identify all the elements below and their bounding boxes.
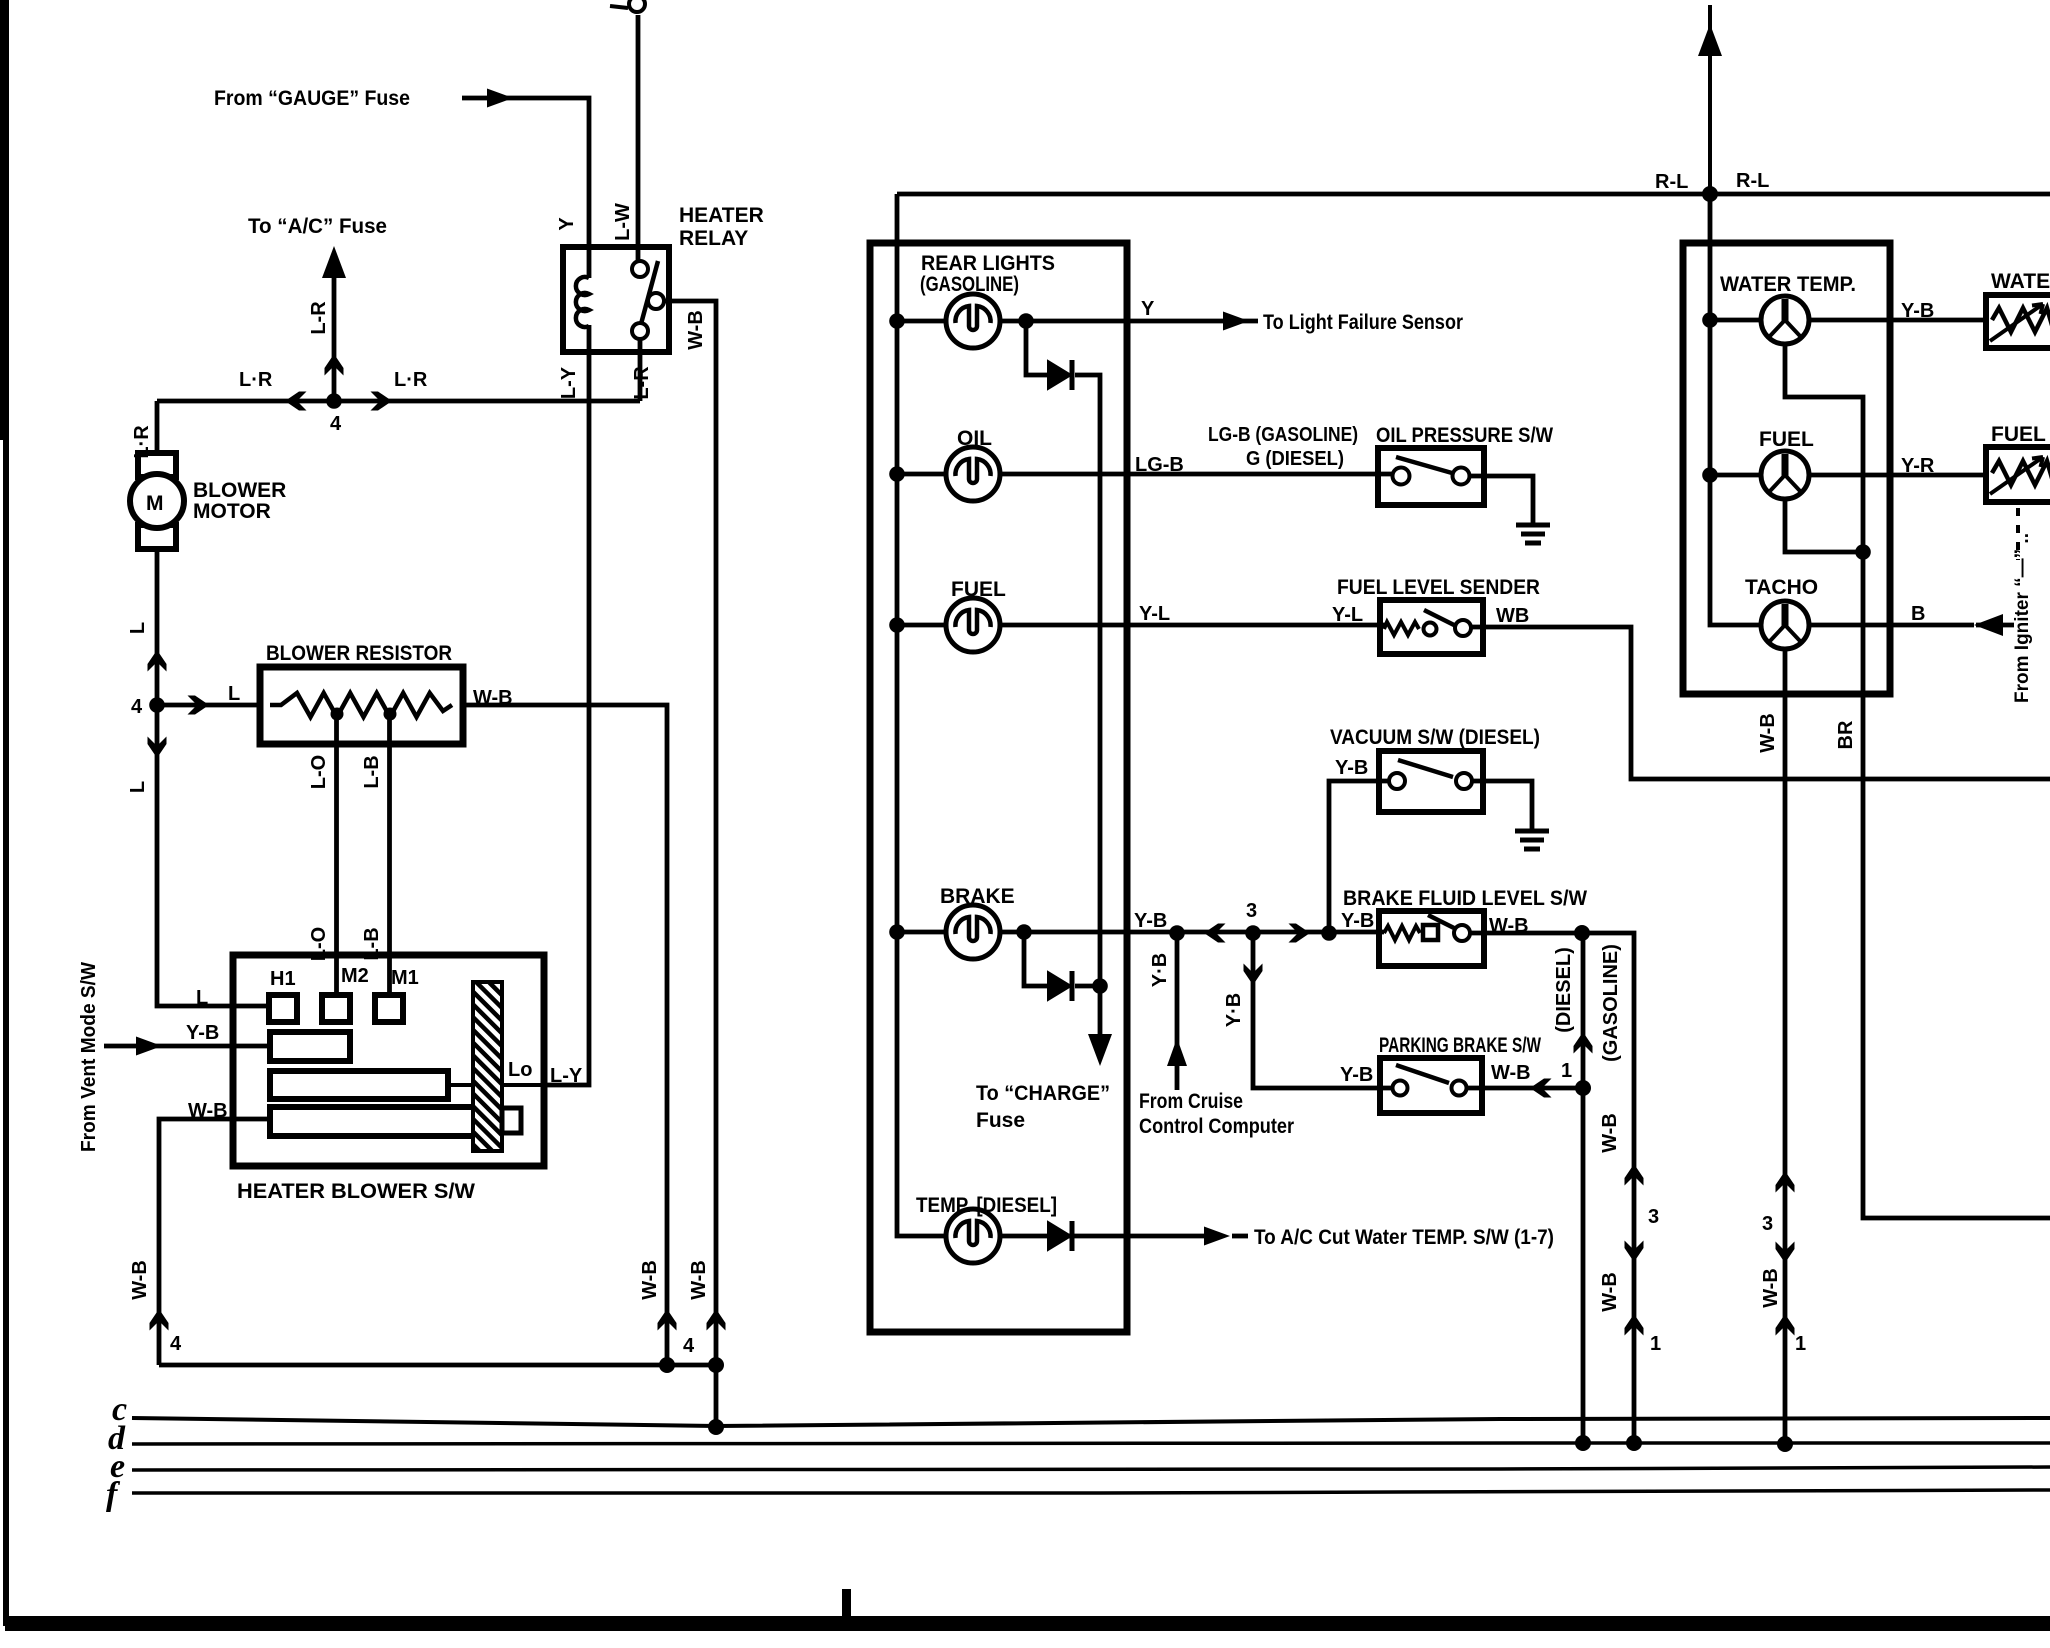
svg-text:L-W: L-W [612, 203, 634, 241]
wire: relay W-B output down right side [663, 301, 716, 1365]
gauge water temp [1761, 296, 1809, 344]
svg-text:BLOWER: BLOWER [193, 479, 286, 502]
wire: diode to charge line [1075, 375, 1100, 1054]
junction dot water [1702, 312, 1718, 328]
svg-text:From Igniter “—” ..: From Igniter “—” .. [2012, 533, 2033, 703]
wiper hatched bar [473, 982, 502, 1151]
wire: rear lamp row [897, 319, 946, 324]
switch contact bar 1 [270, 1032, 350, 1061]
wire: resistor tap L-B to M1 [387, 714, 392, 996]
page frame bottom border [5, 1616, 2050, 1631]
svg-text:R-L: R-L [1655, 171, 1688, 193]
oil pressure blade [1396, 457, 1452, 473]
svg-text:To “CHARGE”: To “CHARGE” [976, 1082, 1110, 1105]
svg-text:L: L [127, 622, 149, 634]
wire: gasoline branch [1582, 933, 1634, 1443]
arrowhead on GAUGE fuse wire [487, 89, 513, 108]
svg-text:M1: M1 [391, 967, 419, 989]
svg-text:From “GAUGE” Fuse: From “GAUGE” Fuse [214, 87, 410, 110]
junction dot vacuum feed [1321, 925, 1337, 941]
svg-text:(DIESEL): (DIESEL) [1553, 947, 1575, 1033]
svg-text:PARKING BRAKE S/W: PARKING BRAKE S/W [1379, 1034, 1541, 1057]
svg-text:REAR LIGHTS: REAR LIGHTS [921, 252, 1055, 275]
chevron down gasoline [1625, 1241, 1644, 1263]
relay coil [576, 277, 589, 327]
svg-text:Y-B: Y-B [1134, 910, 1167, 932]
ground at vacuum [1515, 831, 1549, 849]
svg-text:L-R: L-R [631, 366, 653, 400]
svg-text:OIL PRESSURE S/W: OIL PRESSURE S/W [1376, 424, 1553, 447]
wire: bottom W-B collector [159, 1363, 716, 1368]
svg-text:R-L: R-L [1736, 170, 1769, 192]
wire: L from motor to junction 4 [155, 549, 160, 705]
junction dot brake feed [889, 924, 905, 940]
wire: oil lamp row [897, 472, 946, 477]
svg-text:L-Y: L-Y [550, 1065, 583, 1087]
relay blade [641, 261, 658, 324]
chevron left on brake row [1204, 924, 1226, 943]
wire: fuel sender WB out [1470, 627, 2050, 779]
diode D2 [1048, 971, 1072, 1001]
brake fluid pivot square [1423, 925, 1438, 940]
wire: water temp bottom to BR [1785, 344, 2050, 1218]
chevron left on L-R wire [285, 392, 307, 411]
svg-text:M2: M2 [341, 965, 369, 987]
heater relay box [563, 247, 669, 352]
vacuum contacts [1389, 773, 1405, 789]
svg-text:4: 4 [330, 413, 342, 435]
svg-text:BLOWER RESISTOR: BLOWER RESISTOR [266, 642, 452, 665]
parking brake switch box [1380, 1058, 1482, 1113]
chevron up W-B tacho line [1776, 1171, 1795, 1193]
svg-text:W-B: W-B [188, 1100, 228, 1122]
junction dot on rail c [708, 1419, 724, 1435]
diode D3 [1048, 1221, 1072, 1251]
chevron down tacho line [1776, 1242, 1795, 1264]
fuel sender right box [1986, 423, 2050, 502]
svg-text:W-B: W-B [1491, 1062, 1531, 1084]
wire: brake diode out [1075, 984, 1100, 989]
oil pressure switch box [1378, 448, 1484, 505]
junction dot 3 [1245, 925, 1261, 941]
fuel level sender box [1380, 600, 1483, 654]
svg-text:3: 3 [1762, 1213, 1773, 1235]
junction dots on rail d [1575, 1435, 1591, 1451]
arrowhead down to charge fuse [1088, 1034, 1112, 1066]
chevron up on A/C stem [325, 354, 344, 376]
wire: relay L-R bottom contact to horizontal [638, 338, 643, 401]
svg-text:3: 3 [1246, 900, 1257, 922]
svg-text:G (DIESEL): G (DIESEL) [1246, 448, 1344, 470]
svg-text:FUEL LEVEL SENDER: FUEL LEVEL SENDER [1337, 576, 1540, 599]
junction dot 4 at resistor feed [149, 697, 165, 713]
svg-text:4: 4 [170, 1333, 182, 1355]
svg-text:H1: H1 [270, 968, 296, 990]
junction dot 4 [326, 393, 342, 409]
terminal H1 [269, 995, 297, 1022]
bar2 link to wiper [448, 1083, 472, 1087]
svg-text:From Cruise: From Cruise [1139, 1090, 1243, 1113]
svg-text:Y-B: Y-B [1901, 300, 1934, 322]
brake fluid contact [1454, 925, 1470, 941]
fuel sender pivot contact [1424, 623, 1437, 636]
gauge tacho [1761, 601, 1809, 649]
svg-text:W-B: W-B [1757, 713, 1779, 753]
wire: From GAUGE fuse feed to heater relay coil (Y) [462, 98, 589, 278]
junction dot rear feed [889, 313, 905, 329]
svg-text:W-B: W-B [639, 1260, 661, 1300]
svg-text:From Vent Mode S/W: From Vent Mode S/W [78, 962, 100, 1152]
wire: fuel lamp row [897, 623, 946, 628]
brake fluid level switch box [1379, 911, 1484, 966]
wire: brake lamp row [897, 930, 946, 935]
brake fluid resistor [1384, 926, 1420, 940]
wire: W-B continues to rail c [714, 1365, 719, 1427]
wire: cruise control line [1175, 933, 1180, 1090]
svg-text:W-B: W-B [1760, 1268, 1782, 1308]
junction dot brake out [1016, 924, 1032, 940]
vacuum blade [1398, 760, 1453, 777]
connector tail [610, 6, 628, 8]
svg-text:TACHO: TACHO [1745, 576, 1818, 599]
arrowhead B from igniter [1974, 614, 2003, 636]
junction dot charge line [1092, 978, 1108, 994]
svg-text:To “A/C” Fuse: To “A/C” Fuse [248, 215, 387, 238]
water temp sender box [1986, 270, 2050, 348]
wire: fuel row [1710, 473, 1761, 478]
svg-text:L: L [196, 987, 208, 1009]
wire: L-R horizontal blower feed [157, 399, 640, 404]
wire: W-B from blower switch down [159, 1119, 270, 1365]
wire: tacho bottom W-B down [1783, 649, 1788, 1443]
wire: oil pressure switch to ground [1469, 476, 1533, 525]
svg-text:Control Computer: Control Computer [1139, 1115, 1294, 1138]
wire: R-L arrow up [1708, 5, 1712, 194]
wire: R-L top rail [897, 192, 2050, 197]
chevron up W-B mid [658, 1309, 677, 1331]
chevron down below junction [148, 737, 167, 759]
svg-text:HEATER: HEATER [679, 204, 764, 227]
junction dot diesel/gasoline [1574, 925, 1590, 941]
parking blade [1396, 1065, 1449, 1083]
svg-text:HEATER BLOWER S/W: HEATER BLOWER S/W [237, 1180, 475, 1203]
svg-text:BRAKE FLUID LEVEL S/W: BRAKE FLUID LEVEL S/W [1343, 887, 1587, 910]
junction dot fuel-br [1855, 544, 1871, 560]
arrowhead To A/C fuse [322, 246, 346, 278]
wire: Y-B vent mode feed [104, 1044, 270, 1049]
svg-text:L-O: L-O [308, 755, 330, 789]
svg-text:Y-B: Y-B [186, 1022, 219, 1044]
rail d [132, 1443, 2050, 1444]
wire: rear lights feed vertical [897, 194, 946, 1236]
svg-text:L·R: L·R [394, 369, 428, 391]
rails c d e f [132, 1418, 2050, 1493]
svg-text:L: L [127, 781, 149, 793]
rear lights box [870, 243, 1127, 1332]
svg-text:W-B: W-B [1599, 1272, 1621, 1312]
svg-text:Fuse: Fuse [976, 1109, 1025, 1132]
svg-text:WATER TEMP. SENDER: WATER TEMP. SENDER [1991, 270, 2050, 293]
wire: To A/C fuse stem [332, 264, 337, 401]
arrowhead to light failure sensor [1223, 312, 1249, 331]
wire: vacuum switch feed [1329, 781, 1390, 933]
svg-text:RELAY: RELAY [679, 227, 748, 250]
blower resistor box [260, 667, 463, 744]
svg-text:W-B: W-B [473, 687, 513, 709]
connector circle at top edge [629, 0, 645, 12]
chevron up gasoline lower [1625, 1314, 1644, 1336]
wire: fusible link L-W down to relay top contact [636, 15, 641, 262]
svg-text:VACUUM S/W (DIESEL): VACUUM S/W (DIESEL) [1330, 726, 1540, 749]
wire: diesel branch down [1581, 933, 1586, 1443]
wire: fuel bottom to BR [1785, 499, 1863, 552]
svg-text:FUEL SENDER: FUEL SENDER [1991, 423, 2050, 446]
wire: water temp row [1710, 318, 1761, 323]
svg-text:Y-R: Y-R [1901, 455, 1935, 477]
heater blower switch box [233, 955, 544, 1166]
chevron up gasoline line [1625, 1164, 1644, 1186]
vacuum switch box [1379, 751, 1483, 812]
svg-text:LG-B (GASOLINE): LG-B (GASOLINE) [1208, 424, 1358, 446]
switch contact bar 2 [270, 1071, 448, 1099]
svg-text:Y-B: Y-B [1340, 1064, 1373, 1086]
resistor element [270, 693, 452, 717]
relay top contact [632, 261, 648, 277]
svg-text:WB: WB [1496, 605, 1529, 627]
svg-text:L-R: L-R [308, 301, 330, 335]
arrowhead Y-B feed [136, 1037, 162, 1056]
wire: gauges feed vertical [1710, 194, 1761, 625]
ground at oil pressure [1516, 525, 1550, 543]
junction dot cruise [1169, 925, 1185, 941]
dashed continuation below fuel sender [2016, 508, 2020, 560]
wire: brake lamp diode drop [1024, 932, 1048, 986]
svg-text:To Light Failure Sensor: To Light Failure Sensor [1263, 311, 1463, 334]
chevron up diesel line [1574, 1032, 1593, 1054]
wire: tacho row right [1809, 623, 1974, 628]
wire: L down to heater blower switch H1 [157, 705, 266, 1006]
arrowhead R-L up [1698, 24, 1722, 56]
svg-text:4: 4 [131, 696, 143, 718]
svg-text:Y-B: Y-B [1341, 910, 1374, 932]
junction dot right [708, 1357, 724, 1373]
svg-text:Lo: Lo [508, 1059, 532, 1081]
svg-text:Y·B: Y·B [1149, 953, 1171, 987]
wire: parking brake WB out [1466, 1086, 1583, 1091]
gauges cluster box [1683, 243, 1890, 694]
chevron up above junction 4 [148, 650, 167, 672]
lamp temp diesel [946, 1209, 1000, 1263]
arrowhead up cruise [1167, 1038, 1187, 1066]
svg-text:L-B: L-B [361, 755, 383, 788]
wire: temp lamp diode row [1000, 1234, 1208, 1239]
chevron up tacho lower [1776, 1314, 1795, 1336]
svg-text:Y: Y [1141, 298, 1155, 320]
wire: wiper to L-Y output [502, 1083, 548, 1087]
svg-text:WATER TEMP.: WATER TEMP. [1720, 273, 1856, 296]
lamp brake [946, 905, 1000, 959]
chevron left parking out [1530, 1079, 1552, 1098]
relay moving contact [648, 293, 664, 309]
svg-text:MOTOR: MOTOR [193, 500, 271, 523]
svg-text:LG-B: LG-B [1135, 454, 1184, 476]
svg-text:Y-L: Y-L [1139, 603, 1170, 625]
svg-text:FUEL: FUEL [1759, 428, 1814, 451]
wire: rear lamp to diode drop [1026, 321, 1048, 375]
parking contacts [1393, 1081, 1408, 1096]
svg-text:BR: BR [1835, 720, 1857, 749]
svg-text:Y: Y [556, 217, 578, 231]
svg-text:4: 4 [683, 1335, 695, 1357]
junction dot R-L [1702, 186, 1718, 202]
wire: resistor tap L-O to M2 [334, 714, 339, 996]
lamp fuel [946, 598, 1000, 652]
svg-text:1: 1 [1795, 1333, 1806, 1355]
junction dot left [659, 1357, 675, 1373]
gauge fuel [1761, 451, 1809, 499]
wire: junction 4 to blower resistor [157, 703, 260, 708]
wire: vacuum switch to ground [1472, 781, 1532, 832]
svg-text:3: 3 [1648, 1206, 1659, 1228]
switch contact bar 3 [270, 1107, 474, 1136]
rail f [132, 1490, 2050, 1493]
chevron right to resistor [188, 696, 210, 715]
fuel sender contact [1455, 620, 1471, 636]
svg-text:L·R: L·R [239, 369, 273, 391]
svg-text:Y·B: Y·B [1223, 993, 1245, 1027]
chevron right on brake row [1289, 924, 1311, 943]
diode D1 [1048, 360, 1072, 390]
wire: W-B from resistor to vertical drop [463, 705, 667, 1365]
svg-text:M: M [146, 492, 164, 515]
wire: Y-B drop to parking brake [1253, 933, 1394, 1088]
svg-text:W-B: W-B [129, 1260, 151, 1300]
svg-text:To A/C Cut Water TEMP. S/W (1-: To A/C Cut Water TEMP. S/W (1-7) [1254, 1226, 1554, 1249]
svg-text:(GASOLINE): (GASOLINE) [1600, 944, 1622, 1062]
wire: relay coil L-Y long drop to blower switch [541, 325, 589, 1085]
arrowhead to A/C cut water temp [1204, 1227, 1230, 1246]
wire: to light failure sensor tail [1229, 319, 1258, 324]
svg-text:Y-B: Y-B [1335, 757, 1368, 779]
chevron up W-B left [150, 1309, 169, 1331]
fuel sender resistor [1384, 622, 1419, 635]
svg-text:W-B: W-B [685, 310, 707, 350]
chevron down on Y-B drop [1244, 964, 1263, 986]
junction dot parking [1575, 1080, 1591, 1096]
svg-text:L-Y: L-Y [558, 366, 580, 399]
wire: L-R into blower motor [155, 401, 160, 453]
junction dot fuel gauge [1702, 467, 1718, 483]
wiper tab [502, 1108, 521, 1133]
blower motor M [130, 453, 184, 549]
junction dot rear out [1018, 313, 1034, 329]
wire: brake fluid WB out [1470, 931, 1582, 936]
svg-text:W-B: W-B [1489, 915, 1529, 937]
relay bottom contact [632, 323, 648, 339]
fuel sender blade [1424, 610, 1456, 626]
svg-text:B: B [1911, 603, 1925, 625]
page frame left border [0, 0, 9, 440]
junction dot fuel [889, 617, 905, 633]
terminal M2 [322, 995, 350, 1022]
chevron right on L-R wire [371, 392, 393, 411]
lamp rear lights [946, 294, 1000, 348]
oil pressure contacts [1393, 468, 1410, 485]
svg-text:1: 1 [1650, 1333, 1661, 1355]
tap dots [331, 708, 344, 721]
rail e [132, 1467, 2050, 1470]
rail c [132, 1418, 2050, 1426]
svg-text:W-B: W-B [1599, 1113, 1621, 1153]
brake fluid blade [1428, 915, 1456, 929]
chevron up W-B right [707, 1309, 726, 1331]
lamp oil [946, 447, 1000, 501]
svg-text:W-B: W-B [688, 1260, 710, 1300]
svg-text:L: L [228, 683, 240, 705]
terminal M1 [375, 995, 403, 1022]
junction dot oil [889, 466, 905, 482]
bottom tick mark [842, 1589, 851, 1619]
svg-text:1: 1 [1561, 1060, 1572, 1082]
svg-text:Y-L: Y-L [1332, 604, 1363, 626]
